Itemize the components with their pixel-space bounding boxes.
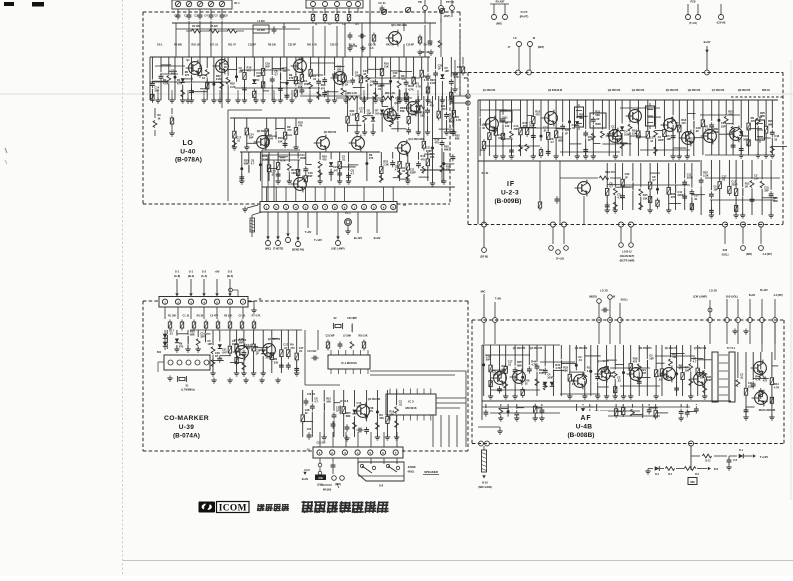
svg-text:2.2K: 2.2K [430,81,436,85]
svg-text:B-10: B-10 [482,481,488,485]
svg-text:Q7 2SC372: Q7 2SC372 [712,89,725,92]
svg-text:68K: 68K [455,137,460,141]
svg-text:.01: .01 [399,403,403,407]
svg-text:470: 470 [446,168,451,172]
svg-text:(SEND RX): (SEND RX) [292,249,304,252]
svg-text:4.7K: 4.7K [705,127,711,131]
svg-text:.047: .047 [441,107,447,111]
svg-text:S-1: S-1 [189,270,194,274]
svg-text:100P: 100P [624,133,630,137]
svg-text:4.7K: 4.7K [453,75,459,79]
svg-text:100P: 100P [547,375,553,379]
svg-text:10K: 10K [291,171,296,175]
svg-text:10P: 10P [207,342,212,346]
svg-text:100P: 100P [658,138,664,142]
svg-text:14 320: 14 320 [257,29,265,32]
svg-text:4.7: 4.7 [550,140,554,144]
svg-text:68K: 68K [444,148,449,152]
svg-text:B-11: B-11 [705,460,711,463]
svg-text:10P: 10P [713,188,718,192]
svg-text:1P: 1P [256,352,259,356]
svg-text:C13 1HF: C13 1HF [307,351,317,353]
svg-text:470: 470 [321,86,326,90]
svg-text:(DET): (DET) [538,46,545,49]
svg-text:1P: 1P [438,67,441,71]
svg-text:ICOM: ICOM [219,503,247,513]
svg-text:PTT HI: PTT HI [446,1,454,4]
svg-text:C5 .01: C5 .01 [238,315,246,318]
svg-text:1P: 1P [625,175,628,179]
svg-text:1P: 1P [588,138,591,142]
svg-text:470: 470 [430,104,435,108]
svg-text:470: 470 [289,76,294,80]
svg-text:.01: .01 [169,332,173,336]
svg-text:LO B-12: LO B-12 [622,251,632,254]
svg-text:.01: .01 [572,126,576,130]
svg-text:(B-009B): (B-009B) [494,198,521,205]
svg-text:L5 1MH: L5 1MH [343,336,352,338]
svg-text:4.7: 4.7 [693,360,697,364]
svg-text:33P: 33P [707,378,712,382]
svg-text:S-8: S-8 [379,484,384,488]
svg-text:(SIG LAMP): (SIG LAMP) [331,248,344,251]
svg-text:50P: 50P [239,340,244,344]
svg-text:470: 470 [728,112,733,116]
svg-text:470: 470 [401,77,406,81]
svg-text:Q1 2SC372: Q1 2SC372 [483,89,496,92]
svg-text:.01: .01 [402,169,406,173]
svg-text:IF: IF [507,181,515,188]
svg-text:.01: .01 [299,349,303,353]
svg-text:(CW HI): (CW HI) [717,22,726,25]
svg-text:C16 .01: C16 .01 [307,394,316,396]
svg-text:33P: 33P [721,124,726,128]
svg-text:4.7K: 4.7K [384,116,390,120]
svg-text:2000Ω:: 2000Ω: [408,466,417,469]
svg-text:(A-8): (A-8) [174,274,180,278]
svg-text:C18 8P: C18 8P [406,44,414,47]
svg-text:220P: 220P [731,183,737,187]
svg-text:R5 100: R5 100 [224,315,232,318]
svg-text:30P: 30P [514,127,519,131]
svg-text:R-4: R-4 [668,473,673,476]
svg-text:R3 220: R3 220 [210,26,218,28]
svg-text:10P: 10P [367,111,372,115]
svg-text:56K: 56K [617,137,622,141]
svg-text:(MIC GAIN): (MIC GAIN) [478,486,491,489]
svg-text:J-5: J-5 [306,449,310,452]
svg-text:470: 470 [435,141,440,145]
svg-text:R3 1K: R3 1K [197,315,204,318]
svg-text:470: 470 [290,346,295,350]
svg-text:R60 3.3K: R60 3.3K [385,92,395,95]
svg-text:.047: .047 [333,168,339,172]
svg-text:Q8 2SC372: Q8 2SC372 [738,89,751,92]
svg-text:470: 470 [681,121,686,125]
svg-text:2.2K: 2.2K [350,112,356,116]
svg-text:Q3 2SC372: Q3 2SC372 [608,89,621,92]
svg-text:(MIC): (MIC) [265,248,271,251]
svg-text:68K: 68K [346,414,351,418]
svg-text:C22 5P: C22 5P [288,44,296,47]
svg-text:L4 320: L4 320 [257,20,265,23]
svg-text:470: 470 [179,345,184,349]
svg-text:.047: .047 [222,351,228,355]
svg-text:30P: 30P [154,89,159,93]
svg-text:(MOD): (MOD) [589,296,597,299]
svg-text:50P: 50P [486,358,491,362]
svg-text:4.7: 4.7 [652,178,656,182]
svg-text:C35 3BP: C35 3BP [347,317,357,320]
svg-text:68K: 68K [563,368,568,372]
svg-text:1K: 1K [745,185,748,189]
svg-text:470: 470 [421,157,426,161]
svg-text:C26 33P: C26 33P [317,443,326,445]
svg-text:4.7: 4.7 [351,171,355,175]
svg-text:AF: AF [581,415,592,422]
svg-text:56K: 56K [400,109,405,113]
svg-text:470: 470 [763,379,768,383]
svg-text:T1 T1-1: T1 T1-1 [727,347,736,350]
svg-text:1P: 1P [565,131,568,135]
svg-text:56K: 56K [664,376,669,380]
svg-text:455K: 455K [595,123,601,126]
svg-text:.01: .01 [342,158,346,162]
svg-text:1P: 1P [336,409,339,413]
svg-text:15K: 15K [337,68,342,72]
svg-text:470: 470 [751,119,756,123]
svg-text:(VOL): (VOL) [722,254,729,257]
svg-text:LO: LO [183,140,194,147]
svg-text:Q10 2SC1239: Q10 2SC1239 [391,24,407,27]
svg-text:MIC: MIC [481,290,486,294]
svg-text:470: 470 [185,73,190,77]
svg-text:R63 4.7K: R63 4.7K [347,92,357,95]
svg-text:68K: 68K [517,363,522,367]
svg-text:PL-1: PL-1 [345,212,351,215]
svg-text:PCB: PCB [690,1,695,4]
svg-text:(CHAN SET): (CHAN SET) [620,255,635,258]
svg-text:EX-L: EX-L [157,44,163,47]
svg-text:10P: 10P [754,177,759,181]
svg-text:(B-078A): (B-078A) [175,157,202,164]
svg-text:R6 1K: R6 1K [349,44,356,47]
svg-text:470: 470 [535,113,540,117]
svg-text:4.7K: 4.7K [408,87,414,91]
svg-text:R41 4.7K: R41 4.7K [307,44,317,47]
svg-text:50P: 50P [265,65,270,69]
svg-text:B-B (VOL): B-B (VOL) [726,296,738,299]
svg-text:1K: 1K [224,65,227,69]
svg-text:R11 47: R11 47 [228,44,236,47]
svg-text:XF: XF [596,117,600,121]
svg-text:B+12V: B+12V [354,236,362,240]
svg-text:R18 470: R18 470 [605,171,615,174]
svg-text:1K: 1K [345,83,348,87]
svg-text:470: 470 [322,157,327,161]
svg-text:33P: 33P [256,74,261,78]
svg-text:(B-074A): (B-074A) [173,433,200,440]
svg-text:4.7: 4.7 [572,382,576,386]
svg-text:MC4016: MC4016 [406,406,417,410]
svg-text:B+9V: B+9V [704,40,711,44]
svg-text:4.7K: 4.7K [416,85,422,89]
svg-text:10P: 10P [666,137,671,141]
svg-text:100: 100 [375,112,380,116]
svg-text:1K: 1K [157,118,160,121]
svg-text:30P: 30P [249,136,254,140]
svg-text:S-2: S-2 [228,270,233,274]
svg-text:.01: .01 [283,346,287,350]
svg-text:B+9V: B+9V [302,477,309,481]
svg-text:68K: 68K [558,138,563,142]
svg-text:100: 100 [265,356,270,360]
svg-text:C13 1P: C13 1P [248,44,256,47]
svg-text:470: 470 [287,128,292,132]
svg-text:330: 330 [274,360,279,364]
svg-text:.01: .01 [508,362,512,366]
svg-text:U-4B: U-4B [576,424,593,431]
svg-text:50P: 50P [743,137,748,141]
svg-text:C3 47P: C3 47P [210,315,218,318]
svg-text:.01: .01 [650,139,654,143]
svg-text:C24: C24 [307,428,312,431]
svg-text:+9V: +9V [214,270,219,274]
svg-text:B+9V: B+9V [374,236,381,240]
svg-text:56K: 56K [714,130,719,134]
svg-text:(A-4): (A-4) [201,274,207,278]
svg-text:4.7K: 4.7K [456,118,462,122]
svg-text:T+9V: T+9V [495,297,502,301]
svg-text:D-2: D-2 [655,473,660,476]
svg-text:B-8: B-8 [714,468,719,471]
svg-text:(B-008B): (B-008B) [567,432,594,439]
svg-text:CO-MARKER: CO-MARKER [164,415,209,422]
svg-text:R-6: R-6 [695,473,700,476]
svg-text:IC 3: IC 3 [408,400,414,404]
svg-text:R1 10K: R1 10K [168,315,176,318]
svg-text:Q12 2SC1239: Q12 2SC1239 [408,138,424,141]
svg-text:4.7: 4.7 [274,73,278,77]
svg-text:R1 1: R1 1 [234,2,240,5]
svg-text:S01: S01 [157,351,162,354]
svg-text:.01: .01 [236,139,240,143]
svg-text:100: 100 [269,136,274,140]
svg-text:100: 100 [505,124,510,128]
svg-text:4.7K: 4.7K [555,366,561,370]
svg-text:T+12V: T+12V [314,238,322,242]
svg-text:10K: 10K [326,399,331,403]
svg-text:Q2 3SK40-M: Q2 3SK40-M [548,89,562,92]
svg-text:220P: 220P [410,171,416,175]
svg-text:4.7: 4.7 [314,400,318,404]
svg-text:D8.D9 2SD30B: D8.D9 2SD30B [759,409,776,412]
svg-text:4.7: 4.7 [251,161,255,165]
svg-text:U-2-3: U-2-3 [501,190,519,197]
svg-text:2.2K: 2.2K [230,85,236,89]
svg-text:(B-4): (B-4) [188,274,194,278]
svg-text:(RCTR AMP): (RCTR AMP) [620,260,635,263]
svg-text:Q5 2SC373: Q5 2SC373 [665,347,678,350]
svg-text:.01: .01 [363,72,367,76]
svg-text:470: 470 [298,124,303,128]
svg-text:(ANT): (ANT) [444,15,451,18]
svg-text:33P: 33P [764,189,769,193]
svg-text:RX ANT: RX ANT [496,1,505,4]
svg-text:2.2K: 2.2K [703,174,709,178]
svg-text:R2 680: R2 680 [174,44,182,47]
svg-text:U-39: U-39 [179,424,195,431]
svg-text:15K: 15K [609,374,614,378]
svg-text:S-1: S-1 [175,270,180,274]
svg-text:B-B: B-B [723,249,728,252]
svg-text:C9 .01: C9 .01 [378,2,386,5]
svg-text:(T=LO): (T=LO) [556,258,564,261]
svg-text:R16 15K: R16 15K [358,336,367,338]
svg-text:D-1: D-1 [739,449,744,452]
svg-text:68K: 68K [760,114,765,118]
svg-text:C-8: C-8 [733,459,738,462]
svg-text:1K: 1K [202,76,205,80]
svg-text:.01: .01 [378,87,382,91]
svg-text:S-2: S-2 [202,270,207,274]
svg-text:J-2 (SP): J-2 (SP) [773,294,782,297]
svg-text:68K: 68K [190,333,195,337]
svg-text:R43 56: R43 56 [386,44,394,47]
svg-text:2.2K: 2.2K [262,157,268,161]
svg-text:SPEAKER: SPEAKER [424,470,438,474]
svg-text:R1 1K: R1 1K [482,172,489,175]
svg-text:.01: .01 [271,172,275,176]
svg-text:4.7K: 4.7K [280,159,286,163]
svg-text:QR 2SC373: QR 2SC373 [639,347,653,350]
svg-text:2.2K: 2.2K [216,77,222,81]
svg-text:R7 4.7K: R7 4.7K [252,315,261,318]
svg-text:.01: .01 [359,110,363,114]
svg-text:(VOL): (VOL) [621,299,628,302]
svg-text:B+9V: B+9V [749,294,756,297]
svg-text:R2 180: R2 180 [192,26,200,28]
svg-text:68K: 68K [244,161,249,165]
svg-text:470: 470 [633,360,638,364]
svg-text:C33 39P: C33 39P [326,336,335,338]
svg-text:Q5 2SC372: Q5 2SC372 [666,89,679,92]
svg-text:MD: MD [690,480,694,484]
svg-text:.01: .01 [740,376,744,380]
svg-text:B+12V: B+12V [760,289,768,292]
svg-text:LO: LO [513,37,516,40]
svg-text:1P: 1P [393,74,396,78]
svg-text:100P: 100P [529,124,535,128]
svg-text:Q6 2SC372: Q6 2SC372 [324,131,337,134]
svg-text:56K: 56K [420,114,425,118]
svg-text:(MR): (MR) [496,23,502,26]
svg-text:U-40: U-40 [180,149,196,156]
svg-text:M4 (B4): M4 (B4) [323,489,332,492]
svg-text:(CW LAMP): (CW LAMP) [693,296,707,299]
svg-text:C1 .01: C1 .01 [182,315,190,318]
svg-text:470: 470 [369,156,374,160]
svg-text:J-2 (SP): J-2 (SP) [762,253,771,256]
svg-text:LO JO: LO JO [600,290,608,293]
svg-text:(B-4): (B-4) [227,274,233,278]
svg-text:(MR): (MR) [746,253,752,256]
svg-text:4.7K: 4.7K [774,385,780,389]
svg-text:CW: CW [318,477,323,480]
svg-text:68K: 68K [773,199,778,203]
svg-text:56K: 56K [595,113,600,117]
svg-text:LO-JO: LO-JO [709,290,717,293]
svg-text:400Ω:: 400Ω: [407,471,414,474]
svg-text:.047: .047 [641,371,647,375]
svg-text:Q6 2SC372: Q6 2SC372 [688,89,701,92]
svg-text:330: 330 [379,416,384,420]
svg-text:.01: .01 [313,77,317,81]
svg-text:(OF M): (OF M) [480,256,488,259]
svg-text:220P: 220P [426,149,432,153]
svg-text:470: 470 [247,69,252,73]
svg-text:.01: .01 [617,379,621,383]
svg-text:470: 470 [671,195,676,199]
svg-text:10P: 10P [493,373,498,377]
svg-text:15K: 15K [278,139,283,143]
svg-text:33P: 33P [200,335,205,339]
svg-text:C15 30: C15 30 [368,44,376,47]
svg-text:IC-1 MC4016: IC-1 MC4016 [341,361,357,365]
svg-text:(1.7000MHz): (1.7000MHz) [181,389,195,392]
svg-text:Q2 2SC373: Q2 2SC373 [530,347,543,350]
svg-text:Q4 2SC372: Q4 2SC372 [632,89,645,92]
svg-text:PB: PB [418,1,422,4]
svg-text:LF 13-8: LF 13-8 [340,400,349,403]
svg-text:15K: 15K [411,113,416,117]
svg-text:Q4 2SC784: Q4 2SC784 [368,398,381,401]
svg-text:(T NOTE): (T NOTE) [273,248,284,251]
svg-text:F1 F2: F1 F2 [521,10,528,14]
svg-text:10P: 10P [649,357,654,361]
svg-text:.01: .01 [578,358,582,362]
svg-text:R8 100: R8 100 [268,44,276,47]
svg-text:T+12V: T+12V [760,455,768,459]
svg-text:1P: 1P [215,354,218,358]
svg-text:2.2K: 2.2K [383,163,389,167]
svg-text:T+9V: T+9V [305,230,312,234]
svg-text:(PA-PT): (PA-PT) [520,16,529,19]
svg-text:15K: 15K [384,65,389,69]
svg-text:10P: 10P [444,69,449,73]
svg-text:R36 1K: R36 1K [762,89,770,92]
svg-text:15K: 15K [632,132,637,136]
svg-text:10K: 10K [643,196,648,200]
svg-text:.01: .01 [694,197,698,201]
svg-text:(T=LO): (T=LO) [689,22,697,25]
svg-text:50P: 50P [308,174,313,178]
